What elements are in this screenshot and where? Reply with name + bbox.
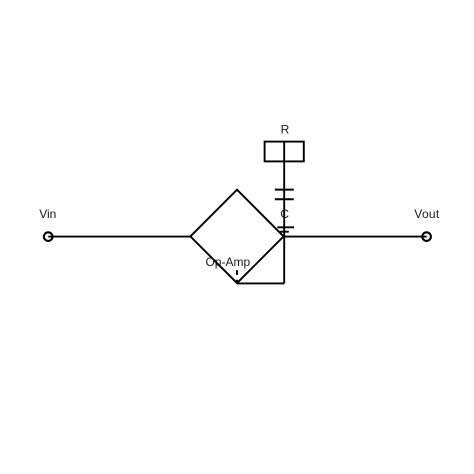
wire input [48,236,190,238]
svg-text:Vin: Vin [39,207,56,221]
terminal Vin [44,232,53,241]
wire feedback bottom [237,282,284,284]
svg-text:C: C [280,207,289,221]
svg-text:R: R [281,122,290,136]
resistor R [265,142,304,162]
capacitor C [275,190,294,200]
wire output [284,236,427,238]
terminal Vout [422,232,431,241]
op-amp U1 [190,190,283,283]
svg-text:Op-Amp: Op-Amp [205,255,250,269]
ground [277,227,294,231]
wire stem vertical [283,142,285,237]
leader dashed line [236,270,238,283]
wire feedback vertical [283,237,285,284]
svg-text:Vout: Vout [414,207,440,221]
